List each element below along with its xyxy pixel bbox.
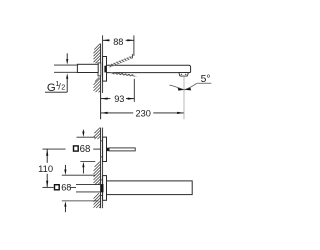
socket behind wall: [98, 63, 101, 76]
handle escutcheon: [103, 137, 107, 161]
handle lever root (dark): [107, 148, 110, 151]
spout escutcheon: [103, 176, 107, 201]
wall hatching upper band: [94, 44, 101, 63]
svg-text:93: 93: [114, 94, 124, 104]
68 extension bottom edge (bottom esc): [62, 200, 99, 202]
outlet nub (mousseur): [179, 73, 188, 77]
dimension 110: [38, 149, 53, 187]
handle back-plate edges: [101, 140, 103, 142]
68 arrow below (up): [64, 201, 66, 212]
dark spout root: [104, 66, 108, 73]
dimension 88: [103, 35, 134, 55]
union nut: [77, 64, 98, 72]
escutcheon flange (plan): [103, 57, 107, 82]
5-degree angle arc with arrows: [169, 83, 197, 90]
68 arrow above (down): [64, 165, 66, 175]
label line left (110 bottom extension): [42, 186, 53, 188]
handle lever: [109, 148, 135, 151]
68 extension bottom edge: [80, 161, 95, 163]
dark pipe section in wall: [101, 184, 104, 192]
68 arrow above (down): [82, 130, 84, 137]
dimension 93: [101, 79, 134, 104]
wall hatching lower band: [94, 77, 101, 92]
pipe diameter arrow top: [66, 53, 68, 64]
label leader right: [93, 148, 101, 150]
supply pipe: [54, 65, 101, 72]
wall hatching band 1: [94, 128, 101, 140]
68 extension top edge (bottom esc): [62, 174, 96, 176]
svg-text:2: 2: [61, 82, 65, 91]
dimension 230: [101, 109, 184, 119]
spout (side view): [107, 181, 193, 195]
svg-text:110: 110: [38, 163, 53, 174]
label leader right: [70, 186, 76, 188]
lower wedge (hatched sliver below spout): [111, 72, 135, 76]
svg-text:5°: 5°: [201, 74, 211, 85]
svg-text:88: 88: [113, 37, 123, 47]
square symbol top label: [74, 146, 79, 151]
pipe diameter arrow bottom / G1/2 leader: [45, 73, 68, 92]
wall finished line (right) / 88 left extension: [102, 35, 104, 93]
wall finished line: [102, 128, 104, 209]
square symbol bottom label: [55, 185, 60, 190]
wall rough line (left): [100, 44, 102, 120]
68 arrow below (up): [82, 162, 84, 174]
wall rough line: [100, 128, 102, 209]
svg-text:G: G: [47, 82, 56, 94]
spout (plan): [107, 65, 191, 72]
upper wedge (lever in plan, knurled band): [109, 54, 133, 67]
G 1/2 label: [47, 79, 65, 94]
outlet vertical reference line: [183, 76, 185, 119]
wall hatching band 3 (below pipe): [94, 193, 101, 208]
supply pipe (side view): [76, 185, 101, 192]
spout back-plate edges: [101, 179, 103, 181]
5 degree leader + text: [197, 82, 211, 84]
svg-text:68: 68: [80, 144, 91, 155]
svg-text:68: 68: [61, 183, 71, 193]
68 extension top edge: [77, 136, 96, 138]
wall hatching band 2 (between escutcheons, to pipe): [94, 162, 101, 185]
svg-text:230: 230: [136, 109, 151, 119]
label line left: [42, 148, 65, 150]
